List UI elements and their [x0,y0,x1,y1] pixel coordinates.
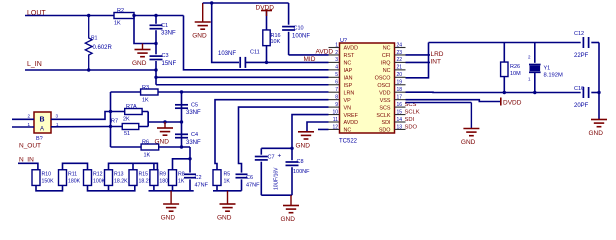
svg-text:3: 3 [335,57,338,63]
wire C10 branch from rail [288,3,290,25]
svg-text:R6: R6 [142,140,149,146]
resistor R6 1K row [111,146,191,148]
junction cap bus bottom [180,145,183,148]
capacitor C11 103NF inline [239,57,241,68]
resistor R26 10M vertical [503,43,505,63]
pin 3 stub (left) [329,61,340,63]
svg-text:C7: C7 [268,155,275,161]
wire C7/C8 top rail [261,147,292,149]
svg-text:GND: GND [217,215,232,222]
svg-text:LRN: LRN [344,90,355,96]
svg-text:2K: 2K [123,117,130,123]
node bus vertical left [110,92,112,147]
svg-text:21: 21 [397,65,403,71]
svg-text:GND: GND [461,139,476,146]
svg-text:LRD: LRD [431,51,444,58]
capacitor C8 100NF [291,148,293,160]
pin 20 stub (right) [395,76,406,78]
junction top rail [210,1,213,4]
svg-text:10: 10 [332,109,338,115]
svg-text:VDD: VDD [379,90,390,96]
wire B1 left pin bottom [12,126,34,128]
capacitor C2 47NF [189,159,191,173]
svg-text:R2: R2 [117,8,124,14]
resistor R16 10K vertical [266,46,268,63]
ground GND-I right [591,119,607,121]
ground GND-B under top rail [202,3,204,22]
pin 9 stub (left) [329,106,340,108]
wire IC pin 10 riser to C7/C8 [292,115,329,149]
junction C1 top on LOUT wire [154,14,157,17]
svg-text:9: 9 [335,102,338,108]
pin 21 stub (right) [395,69,406,71]
svg-text:OSCI: OSCI [377,83,390,89]
svg-text:VSS: VSS [380,98,391,104]
svg-text:+: + [278,153,282,160]
svg-text:4: 4 [335,65,338,71]
svg-text:R10: R10 [42,172,52,178]
svg-text:14: 14 [397,117,403,123]
resistor R10 150K vertical [32,170,40,186]
resistor R3 1K row [111,91,329,93]
wire R8 top to C2 top [173,159,191,170]
svg-text:11: 11 [333,117,338,123]
svg-text:R12: R12 [93,172,103,178]
pin 6 stub (left) [329,84,340,86]
svg-text:6: 6 [335,80,338,86]
svg-text:NC: NC [383,46,391,52]
resistor R13 18.2K vertical [105,170,113,186]
svg-text:L_IN: L_IN [27,61,42,68]
wire ladder bottom GND rail [153,186,155,191]
svg-text:VP: VP [344,98,352,104]
wire mid node to cap bus [148,121,181,123]
pin 10 stub (left) [329,114,340,116]
wire N_IN entry [18,163,38,170]
resistor R7 row [111,126,149,128]
svg-text:15: 15 [397,109,403,115]
svg-text:R7A: R7A [126,104,137,110]
capacitor C4 33NF [175,133,188,135]
svg-text:180K: 180K [68,179,81,185]
wire B1 right bottom to node bus [51,126,111,128]
ground GND-E [227,191,229,204]
svg-text:N_IN: N_IN [19,157,34,164]
svg-text:C4: C4 [191,132,198,138]
junction L_IN / R1 bottom [87,68,90,71]
wire IC pin 9 to C6 [239,107,329,173]
ground GND-D ladder [170,191,172,204]
svg-text:33NF: 33NF [186,140,201,146]
svg-text:AVDD: AVDD [344,46,359,52]
svg-text:C3: C3 [162,53,169,59]
capacitor C7 10UF/16V electrolytic [260,148,262,154]
svg-text:U?: U? [340,38,347,44]
svg-text:C2: C2 [195,175,202,181]
svg-text:17: 17 [397,94,403,100]
capacitor C6 47NF [236,173,248,175]
wire ladder top R13-R15-R9 [109,163,158,170]
svg-text:SCS: SCS [379,105,390,111]
svg-text:TC522: TC522 [339,139,358,145]
wire R5/C6 bottom rail [216,186,218,191]
svg-text:1K: 1K [144,153,151,159]
wire R7A right to R7 right [147,112,149,127]
svg-text:100K: 100K [93,179,106,185]
svg-text:10UF/16V: 10UF/16V [274,167,280,190]
wire ladder bottom R10-R11 [36,186,63,191]
svg-text:DVDD: DVDD [503,100,522,107]
svg-text:10K: 10K [271,39,281,45]
wire IC pin 22 INT [406,61,431,63]
svg-text:R9: R9 [159,172,166,178]
wire IC pin 11 to ground [307,122,329,132]
svg-text:VREF: VREF [344,113,359,119]
svg-text:GND: GND [281,216,296,223]
resistor R15 18.2K vertical [129,170,137,186]
svg-text:C5: C5 [191,103,198,109]
junction C1 bottom / GND branch [154,42,157,45]
resistor R5 1K vertical [213,170,221,186]
wire L_IN riser down to pins 5 and 6 [155,70,157,85]
wire LOUT horizontal [25,15,184,17]
svg-text:GND: GND [132,60,147,67]
wire R6 row riser down [189,147,191,159]
svg-text:C10: C10 [294,26,304,32]
svg-text:GND: GND [161,215,176,222]
svg-text:B?: B? [36,136,43,142]
svg-text:NC: NC [383,68,391,74]
svg-text:150K: 150K [42,179,55,185]
svg-text:CFI: CFI [382,53,391,59]
resistor R7A row [111,111,149,113]
power port DVDD-B [500,98,502,106]
svg-text:0.602R: 0.602R [93,45,113,51]
svg-text:OSCO: OSCO [375,76,391,82]
svg-text:47NF: 47NF [246,183,260,189]
svg-text:INT: INT [431,58,442,65]
wire IC pin 18 VDD to DVDD port [406,100,501,102]
svg-text:22PF: 22PF [574,53,589,59]
svg-text:NC: NC [344,61,352,67]
svg-text:C6: C6 [246,175,253,181]
svg-text:18: 18 [397,87,403,93]
svg-text:C8: C8 [297,159,304,165]
pin 8 stub (left) [329,99,340,101]
svg-text:C12: C12 [574,31,584,37]
ground GND-G below IC [298,131,314,133]
svg-text:R11: R11 [68,172,77,178]
svg-text:N_OUT: N_OUT [19,143,41,150]
svg-text:8.192M: 8.192M [544,73,564,79]
svg-text:SDI: SDI [405,117,415,123]
svg-text:33NF: 33NF [161,31,176,37]
pin 2 stub (left) [329,54,340,56]
svg-text:5: 5 [335,72,338,78]
svg-text:7: 7 [335,87,338,93]
svg-text:13: 13 [397,124,403,130]
svg-text:103NF: 103NF [218,51,236,57]
svg-text:R13: R13 [114,172,124,178]
wire to IC pin 5 [156,76,329,78]
resistor R8 1K vertical [169,170,177,186]
ground GND-F [290,195,292,205]
wire LOUT down-riser to IC pin 4 [184,16,329,70]
pin 17 stub (right) [395,99,406,101]
svg-text:R15: R15 [139,172,149,178]
svg-text:33NF: 33NF [186,110,201,116]
resistor R9 180R vertical [150,170,158,186]
svg-text:C11: C11 [250,50,260,56]
pin 14 stub (right) [395,121,406,123]
svg-text:1K: 1K [178,179,185,185]
pin 12 stub (left) [329,128,340,130]
wire ladder top R11-R12 [63,163,88,170]
wire B1 right top to node bus [51,112,111,120]
svg-text:GND: GND [296,142,311,149]
pin 15 stub (right) [395,114,406,116]
pin 11 stub (left) [329,121,340,123]
capacitor C5 33NF [175,104,188,106]
svg-text:R5: R5 [224,172,231,178]
pin 18 stub (right) [395,91,406,93]
pin 1 stub (left) [329,47,340,49]
wire right vertical to ground [598,43,600,120]
svg-text:20: 20 [397,72,403,78]
svg-text:DVDD: DVDD [256,5,275,12]
pin 24 stub (right) [395,47,406,49]
svg-text:SDO: SDO [405,124,418,130]
svg-text:SDI: SDI [382,120,391,126]
svg-text:IAN: IAN [344,76,353,82]
svg-text:VN: VN [344,105,352,111]
cap bus vertical [181,92,183,147]
svg-text:12: 12 [332,124,338,130]
wire C7/C8 bottom rail [261,194,292,196]
svg-text:19: 19 [397,80,403,86]
pin 7 stub (left) [329,91,340,93]
svg-text:SCLK: SCLK [405,109,420,115]
wire B1 left pin top [12,118,34,120]
wire top rail DVDD/AVDD [203,2,289,4]
svg-text:20PF: 20PF [574,103,589,109]
pin 13 stub (right) [395,128,406,130]
svg-text:8: 8 [335,94,338,100]
wire AVDD to IC pin 2 [289,54,329,56]
svg-text:1K: 1K [114,21,121,27]
wire IC pin 20 OSCO riser to top rail [406,43,429,78]
wire ladder bottom R12-R13 [88,186,135,191]
wire L_IN horizontal [25,69,156,71]
crystal Y1 8.192M [534,43,536,63]
svg-text:GND: GND [589,130,604,137]
svg-text:AVDD: AVDD [344,120,359,126]
svg-text:23: 23 [397,50,403,56]
svg-text:47NF: 47NF [195,183,209,189]
wire IC pin 23 LRD [406,54,431,56]
pin 19 stub (right) [395,84,406,86]
ground GND-C mid [164,122,166,128]
resistor R12 100K vertical [84,170,92,186]
pin 16 stub (right) [395,106,406,108]
svg-text:100NF: 100NF [292,34,310,40]
svg-text:16: 16 [397,102,403,108]
svg-text:RST: RST [344,53,355,59]
svg-text:SCLK: SCLK [376,113,390,119]
wire IC pin 19 OSCI to bottom rail [406,91,581,93]
capacitor C12 22PF inline [582,37,584,48]
resistor R2 1K inline on LOUT wire [114,13,134,19]
op-amp U1 main IC TC522 [340,43,395,133]
pin 4 stub (left) [329,69,340,71]
wire riser to MID/103NF net [212,3,239,62]
svg-text:R3: R3 [142,85,149,91]
wire IC pin 8 to R5 [215,100,329,170]
wire IC pin 12 stub [318,128,329,130]
svg-text:A: A [40,127,44,133]
capacitor C10 100NF [282,26,295,28]
resistor R11 180K vertical [59,170,67,186]
junction cap bus mid [180,120,183,123]
svg-text:IAP: IAP [344,68,353,74]
svg-text:R8: R8 [178,172,185,178]
svg-text:ISP: ISP [344,83,353,89]
svg-text:15NF: 15NF [162,61,177,67]
svg-text:1K: 1K [224,179,231,185]
svg-text:C1: C1 [161,23,168,29]
svg-text:24: 24 [397,42,403,48]
svg-text:R1: R1 [91,36,98,42]
svg-text:C16: C16 [574,86,584,92]
svg-text:10M: 10M [510,71,521,77]
wire from R2 down to GND branch [134,16,156,44]
pin 5 stub (left) [329,76,340,78]
svg-text:NC: NC [344,128,352,134]
svg-text:1K: 1K [142,98,149,104]
svg-text:22: 22 [397,57,403,63]
svg-text:IRQ: IRQ [381,61,391,67]
svg-text:2: 2 [335,50,338,56]
transformer B1 (yellow box) [34,112,51,133]
svg-text:R26: R26 [510,64,520,70]
wire crystal top rail [429,42,581,44]
svg-text:51: 51 [124,131,130,137]
ground GND-H [470,103,472,129]
capacitor C1 33NF [155,16,157,24]
junction C11 net / R16 bottom [265,61,268,64]
pin 23 stub (right) [395,54,406,56]
junction C3 bottom on L_IN wire [154,68,157,71]
svg-text:R7: R7 [111,119,118,125]
svg-text:GND: GND [192,33,207,40]
svg-text:B: B [40,117,45,124]
svg-text:18.2K: 18.2K [114,179,128,185]
junction on LOUT wire at R1 [87,14,90,17]
resistor R1 0.602R (zigzag) [85,16,92,71]
svg-text:1: 1 [335,42,338,48]
ground GND-A on branch [142,44,144,50]
svg-text:MID: MID [304,56,316,63]
power port DVDD-A [261,10,272,12]
svg-text:SDO: SDO [379,128,391,134]
svg-text:100NF: 100NF [293,169,310,175]
capacitor C16 20PF inline [582,87,584,98]
svg-text:Y1: Y1 [544,66,551,72]
pin 22 stub (right) [395,61,406,63]
capacitor C3 15NF [155,44,157,55]
junction R2 right / branch down [132,14,135,17]
wire to IC pin 6 [156,84,329,86]
wire IC pin 17 VSS to ground [406,102,472,104]
